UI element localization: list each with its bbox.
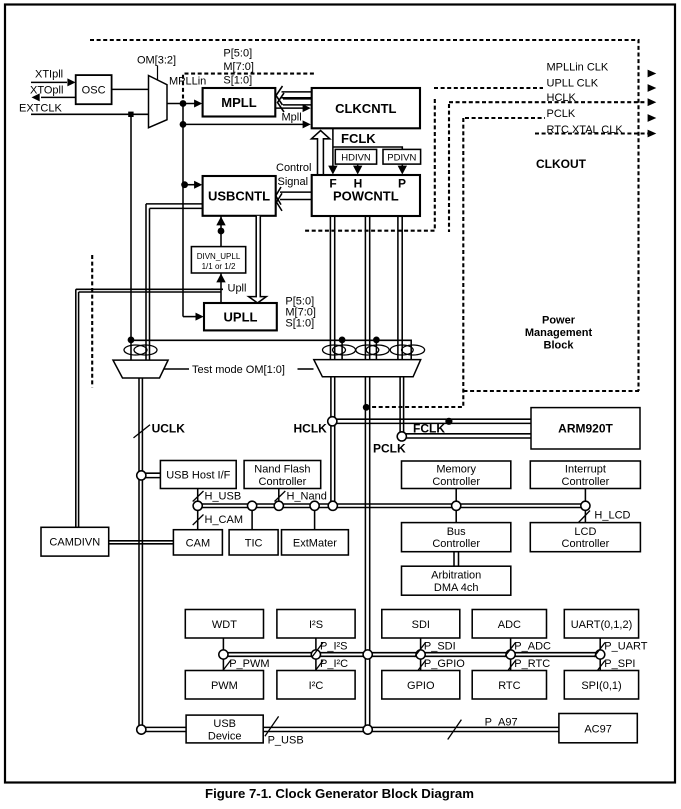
- svg-text:P_I²S: P_I²S: [320, 641, 348, 653]
- junction MPLLin: [180, 100, 187, 107]
- junction FCLK dashed tap dot: [363, 404, 370, 411]
- bus Upll feed down to CAMDIVN: [75, 289, 77, 527]
- wire test mode label left: [164, 368, 190, 370]
- svg-text:Power: Power: [542, 315, 576, 327]
- bus hollow arrow CLKCNTL to MPLL upper: [276, 86, 312, 105]
- controller Nand Flash: [244, 461, 321, 489]
- svg-text:P_I²C: P_I²C: [320, 658, 348, 670]
- wire PDIVN to POWCNTL: [401, 164, 403, 168]
- svg-text:PCLK: PCLK: [373, 442, 406, 456]
- slash P_USB: [265, 716, 279, 736]
- junction hollow P_PWM: [219, 650, 228, 659]
- cpu ARM920T: [531, 408, 640, 449]
- controller Memory: [402, 461, 511, 489]
- switch ellipses right mux group2: [356, 345, 389, 355]
- svg-text:I²S: I²S: [309, 619, 323, 631]
- junction USBCNTL feed: [181, 181, 188, 188]
- svg-text:Memory: Memory: [436, 464, 476, 476]
- svg-text:POWCNTL: POWCNTL: [333, 189, 399, 204]
- svg-text:UPLL CLK: UPLL CLK: [547, 77, 599, 89]
- junction hollow P_UART: [596, 650, 605, 659]
- svg-text:Controller: Controller: [562, 538, 610, 550]
- wire ADC RTC stub: [510, 638, 512, 671]
- junction hollow H_USB: [193, 501, 202, 510]
- wire dashed left stub segment: [91, 255, 93, 387]
- wire MPLLin down branch: [182, 104, 184, 317]
- junction hollow H_Nand: [274, 501, 283, 510]
- arrow into USBCNTL bottom: [216, 217, 225, 226]
- arrow H into POWCNTL: [353, 166, 362, 175]
- mux main: [314, 360, 421, 377]
- arrow branch into CLKCNTL: [303, 120, 311, 128]
- arrow out HCLK: [648, 98, 657, 106]
- svg-text:P_UART: P_UART: [604, 641, 647, 653]
- wire USB Host to bus: [197, 489, 199, 530]
- svg-text:OSC: OSC: [82, 85, 106, 97]
- peripheral SPI: [564, 671, 638, 700]
- svg-text:CAMDIVN: CAMDIVN: [49, 537, 100, 549]
- svg-text:HDIVN: HDIVN: [341, 153, 371, 164]
- svg-text:SPI(0,1): SPI(0,1): [581, 680, 621, 692]
- svg-text:AC97: AC97: [584, 723, 612, 735]
- bus pair1 below mux to H bus: [330, 377, 332, 506]
- wire tap 1 down: [341, 340, 343, 360]
- mux OM[3:2]: [149, 76, 168, 128]
- arrow out RTC XTAL CLK: [648, 130, 657, 138]
- controller USB Host I/F: [160, 461, 236, 489]
- peripheral AC97: [559, 714, 637, 743]
- svg-text:PDIVN: PDIVN: [387, 153, 416, 164]
- bus hollow arrow POWCNTL to CLKCNTL: [311, 131, 329, 176]
- wire dashed RTC XTAL CLK line: [535, 132, 648, 134]
- slash P_UART: [594, 643, 605, 658]
- svg-text:Device: Device: [208, 730, 242, 742]
- svg-text:USB: USB: [213, 718, 236, 730]
- bus USB Device to AC97: [263, 726, 559, 728]
- svg-text:Nand Flash: Nand Flash: [254, 464, 310, 476]
- junction hollow UCLK bottom: [137, 725, 146, 734]
- svg-text:P_ADC: P_ADC: [514, 641, 551, 653]
- svg-text:P_GPIO: P_GPIO: [424, 658, 465, 670]
- peripheral UART: [564, 610, 638, 639]
- bus pair3 below mux to PCLK tap: [399, 377, 401, 437]
- junction hollow TIC: [248, 501, 257, 510]
- wire branch to CLKCNTL: [183, 123, 304, 125]
- svg-text:1/1 or 1/2: 1/1 or 1/2: [202, 262, 236, 271]
- svg-text:UART(0,1,2): UART(0,1,2): [571, 619, 633, 631]
- svg-text:S[1:0]: S[1:0]: [285, 318, 314, 330]
- wire UPLL to DIVN_UPLL: [220, 273, 222, 303]
- svg-text:CLKCNTL: CLKCNTL: [335, 101, 396, 116]
- wire XTIpll input: [31, 81, 67, 83]
- peripheral CAM: [173, 530, 222, 555]
- bus hollow arrow CLKCNTL to MPLL lower: [278, 93, 312, 112]
- junction rail tap 2: [373, 337, 380, 344]
- peripheral I2C: [277, 671, 355, 700]
- wire dashed top control line MPLLin CLK: [90, 40, 639, 391]
- junction hollow P_ADC: [506, 650, 515, 659]
- svg-text:ExtMater: ExtMater: [293, 538, 337, 550]
- svg-text:P_PWM: P_PWM: [229, 658, 269, 670]
- svg-text:Bus: Bus: [447, 526, 466, 538]
- arrow into USBCNTL: [194, 181, 202, 189]
- svg-text:CAM: CAM: [186, 538, 210, 550]
- wire OM[3:2] select stub: [157, 66, 159, 81]
- wire TIC to bus: [251, 506, 253, 530]
- switch ellipses right mux group1: [323, 345, 356, 355]
- wire OSC to mux: [112, 88, 149, 90]
- svg-text:ADC: ADC: [498, 619, 521, 631]
- svg-text:S[1:0]: S[1:0]: [223, 75, 252, 87]
- svg-text:XTIpll: XTIpll: [35, 69, 63, 81]
- arrow P into POWCNTL: [398, 166, 407, 175]
- wire Interrupt to LCD: [584, 489, 586, 523]
- junction hollow LCD: [581, 501, 590, 510]
- bus PCLK to ARM920T: [402, 433, 531, 435]
- arrow into MPLL: [194, 100, 202, 108]
- slash P_SPI: [594, 661, 605, 676]
- arrow out UPLL CLK: [648, 84, 657, 92]
- svg-text:H_CAM: H_CAM: [205, 514, 244, 526]
- divider PDIVN: [383, 149, 421, 164]
- svg-text:FCLK: FCLK: [341, 131, 376, 146]
- switch ellipses left mux: [124, 345, 157, 355]
- bus P horizontal: [223, 652, 600, 654]
- svg-text:USB Host I/F: USB Host I/F: [166, 470, 230, 482]
- bus bottom USB Device line left: [143, 726, 186, 728]
- slash P_A97: [448, 720, 462, 740]
- svg-text:ARM920T: ARM920T: [558, 422, 613, 436]
- svg-text:MPLLin CLK: MPLLin CLK: [547, 61, 609, 73]
- wire Mpll to CLKCNTL: [275, 107, 303, 109]
- svg-text:Figure 7-1. Clock Generator Bl: Figure 7-1. Clock Generator Block Diagra…: [205, 786, 474, 801]
- wire dashed UPLL CLK tap: [434, 87, 543, 89]
- divider CAMDIVN: [41, 527, 109, 556]
- junction test rail left: [128, 337, 135, 344]
- peripheral RTC: [472, 671, 546, 700]
- svg-text:H_LCD: H_LCD: [594, 510, 630, 522]
- junction hollow Memory: [452, 501, 461, 510]
- svg-text:Management: Management: [525, 327, 593, 339]
- slash P_RTC: [505, 661, 516, 676]
- bus H horizontal: [198, 503, 586, 505]
- controller CLKCNTL: [312, 88, 420, 128]
- junction FCLK dot: [445, 418, 452, 425]
- svg-text:Block: Block: [544, 340, 575, 352]
- svg-text:UPLL: UPLL: [224, 310, 258, 325]
- controller USBCNTL: [203, 176, 276, 216]
- mux UCLK: [113, 360, 168, 378]
- junction hollow P_I2S: [311, 650, 320, 659]
- peripheral I2S: [277, 610, 355, 639]
- svg-text:MPLL: MPLL: [221, 95, 256, 110]
- slash H_USB: [193, 491, 204, 502]
- switch ellipses right mux group3: [390, 345, 424, 355]
- peripheral USB Device: [186, 715, 263, 743]
- slash P_PWM: [220, 661, 231, 676]
- controller Bus: [402, 523, 511, 552]
- svg-text:XTOpll: XTOpll: [30, 84, 63, 96]
- svg-text:P_SPI: P_SPI: [604, 658, 635, 670]
- bus pair2 below mux long: [364, 377, 366, 730]
- svg-text:Controller: Controller: [432, 476, 480, 488]
- slash P_I2C: [312, 661, 323, 676]
- junction rail tap 1: [339, 337, 346, 344]
- wire mux out MPLLin: [167, 103, 196, 105]
- slash P_GPIO: [415, 661, 426, 676]
- divider HDIVN: [335, 149, 376, 164]
- svg-text:RTC XTAL CLK: RTC XTAL CLK: [547, 124, 624, 136]
- svg-text:P_USB: P_USB: [268, 735, 304, 747]
- wire EXTCLK down: [130, 114, 132, 360]
- wire dashed v1 control: [305, 99, 435, 231]
- wire test mode label right: [298, 368, 314, 370]
- controller Arbitration DMA: [402, 566, 511, 595]
- bus UCLK pair down: [138, 378, 140, 730]
- wire Memory to Bus ctrl: [455, 489, 457, 523]
- wire I2S I2C stub: [315, 638, 317, 671]
- arrow into OSC: [67, 78, 75, 86]
- divider DIVN_UPLL: [191, 247, 245, 273]
- wire EXTCLK: [31, 113, 149, 115]
- svg-text:SDI: SDI: [412, 619, 430, 631]
- svg-text:Controller: Controller: [562, 476, 610, 488]
- svg-text:USBCNTL: USBCNTL: [208, 189, 270, 204]
- arrow out MPLLin CLK: [648, 70, 657, 78]
- junction hollow pair2 bottom: [363, 725, 372, 734]
- svg-text:DIVN_UPLL: DIVN_UPLL: [197, 252, 241, 261]
- svg-text:Arbitration: Arbitration: [431, 570, 481, 582]
- svg-text:Controller: Controller: [259, 476, 307, 488]
- junction hollow P_SDI: [416, 650, 425, 659]
- slash P_I2S: [312, 643, 323, 658]
- slash H_LCD: [579, 511, 591, 523]
- svg-text:MPLLin: MPLLin: [169, 76, 206, 88]
- bus down to UCLK mux: [145, 204, 147, 360]
- bus pair2 PCLK from POWCNTL: [364, 216, 366, 360]
- svg-text:PWM: PWM: [211, 680, 238, 692]
- peripheral GPIO: [382, 671, 460, 700]
- controller Interrupt: [530, 461, 640, 489]
- wire DIVN_UPLL to USBCNTL: [220, 216, 222, 247]
- bus hollow arrow POWCNTL to USBCNTL upper: [276, 187, 312, 205]
- slash H_CAM: [193, 515, 204, 526]
- peripheral SDI: [382, 610, 460, 639]
- oscillator OSC: [76, 75, 112, 104]
- svg-text:TIC: TIC: [245, 538, 263, 550]
- svg-text:DMA 4ch: DMA 4ch: [434, 582, 479, 594]
- controller LCD: [530, 523, 640, 552]
- svg-text:LCD: LCD: [574, 526, 596, 538]
- bus hollow arrow USBCNTL to UPLL: [249, 216, 267, 303]
- bus CAMDIVN to CAM: [109, 540, 174, 542]
- slash UCLK: [134, 425, 151, 438]
- wire SDI GPIO stub: [420, 638, 422, 671]
- svg-text:H_USB: H_USB: [205, 491, 242, 503]
- svg-text:Test mode OM[1:0]: Test mode OM[1:0]: [192, 364, 285, 376]
- peripheral WDT: [185, 610, 263, 639]
- wire dashed P,M,S control to MPLL: [183, 74, 314, 101]
- wire tap 2 down: [375, 340, 377, 360]
- svg-text:Mpll: Mpll: [282, 112, 302, 124]
- svg-text:P[5:0]: P[5:0]: [223, 48, 252, 60]
- junction EXTCLK: [128, 112, 133, 117]
- junction hollow pair2 PCLK: [363, 650, 372, 659]
- junction hollow HCLK tap: [328, 417, 337, 426]
- svg-text:I²C: I²C: [309, 680, 324, 692]
- slash P_SDI: [415, 643, 426, 658]
- wire WDT PWM stub: [222, 638, 224, 671]
- junction hollow ExtMater: [310, 501, 319, 510]
- wire HDIVN to POWCNTL: [357, 164, 359, 168]
- wire F line: [332, 128, 334, 168]
- svg-text:EXTCLK: EXTCLK: [19, 103, 62, 115]
- svg-text:UCLK: UCLK: [152, 422, 186, 436]
- wire dashed HCLK tap: [449, 101, 647, 103]
- svg-text:RTC: RTC: [498, 680, 520, 692]
- wire dashed v2 stub: [448, 104, 450, 232]
- svg-text:CLKOUT: CLKOUT: [536, 157, 587, 171]
- pll UPLL: [204, 303, 277, 330]
- junction Mpll branch: [180, 121, 187, 128]
- svg-text:P_SDI: P_SDI: [424, 641, 456, 653]
- svg-text:P_RTC: P_RTC: [514, 658, 550, 670]
- svg-text:HCLK: HCLK: [547, 92, 577, 104]
- svg-text:P: P: [398, 177, 406, 191]
- junction hollow UCLK tap: [137, 471, 146, 480]
- arrow F into POWCNTL: [328, 166, 337, 175]
- svg-text:OM[3:2]: OM[3:2]: [137, 55, 176, 67]
- svg-text:M[7:0]: M[7:0]: [223, 61, 254, 73]
- controller POWCNTL: [312, 175, 420, 216]
- wire FCLK distribution: [333, 147, 402, 149]
- bus Bus ctrl to Arbitration: [453, 552, 455, 567]
- svg-text:Controller: Controller: [432, 538, 480, 550]
- svg-text:GPIO: GPIO: [407, 680, 435, 692]
- wire test mode rail: [131, 340, 411, 359]
- wire UART SPI stub: [599, 638, 601, 671]
- peripheral PWM: [185, 671, 263, 700]
- wire into UPLL left: [183, 316, 198, 318]
- wire ExtMater to bus: [314, 506, 316, 530]
- wire NFC to bus: [278, 489, 280, 506]
- bus UCLK to USB Host: [143, 472, 160, 474]
- svg-text:Control: Control: [276, 162, 311, 174]
- wire XTOpll output: [41, 96, 76, 98]
- junction hollow PCLK tap: [397, 432, 406, 441]
- peripheral TIC: [229, 530, 278, 555]
- peripheral ExtMater: [282, 530, 349, 555]
- arrow XTOpll out: [32, 93, 40, 101]
- svg-text:PCLK: PCLK: [547, 108, 576, 120]
- slash P_ADC: [505, 643, 516, 658]
- bus pair3 FCLK from POWCNTL: [397, 216, 399, 360]
- svg-text:WDT: WDT: [212, 619, 237, 631]
- arrow Mpll into CLKCNTL: [303, 104, 311, 112]
- arrow out PCLK: [648, 114, 657, 122]
- svg-text:HCLK: HCLK: [294, 422, 328, 436]
- svg-text:H_Nand: H_Nand: [287, 491, 327, 503]
- slash H_Nand: [275, 491, 286, 502]
- arrow into DIVN_UPLL bottom: [216, 274, 225, 283]
- svg-text:P_A97: P_A97: [485, 716, 518, 728]
- wire dashed PCLK tap: [465, 117, 545, 119]
- bus FCLK to ARM920T: [332, 418, 531, 420]
- bus Upll tap double line to left: [76, 288, 223, 290]
- svg-text:Upll: Upll: [228, 283, 247, 295]
- wire dashed v3 to FCLK dot: [369, 118, 463, 407]
- junction on DIVN_UPLL line: [218, 228, 225, 235]
- pll MPLL: [203, 88, 276, 117]
- wire dashed PMB bottom edge: [464, 390, 640, 392]
- svg-text:Interrupt: Interrupt: [565, 464, 606, 476]
- arrow into UPLL: [196, 313, 204, 321]
- junction hollow HCLK pair end: [328, 501, 337, 510]
- peripheral ADC: [472, 610, 546, 639]
- svg-text:Signal: Signal: [278, 176, 309, 188]
- bus USBCNTL left control double line: [146, 203, 203, 205]
- bus hollow arrow POWCNTL to USBCNTL lower chevron: [277, 193, 283, 211]
- wire feed to USBCNTL: [185, 184, 196, 186]
- bus pair1 HCLK from POWCNTL: [329, 216, 331, 360]
